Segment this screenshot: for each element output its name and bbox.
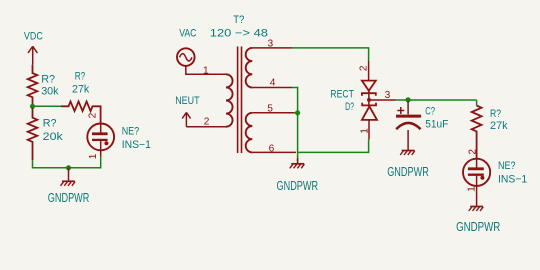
wire rect output — [396, 99, 477, 101]
pin 1 lead D1 — [368, 120, 370, 140]
svg-text:1: 1 — [359, 128, 370, 134]
svg-text:C?: C? — [425, 105, 435, 117]
ac source VAC — [177, 48, 195, 66]
svg-text:NEUT: NEUT — [175, 95, 200, 107]
node C junction pin5 — [295, 110, 300, 115]
ground GNDPWR cap — [400, 147, 415, 156]
resistor R4 27k — [472, 106, 482, 159]
svg-text:5: 5 — [267, 103, 273, 114]
input port NEUT arrow — [182, 112, 190, 126]
svg-text:1: 1 — [88, 153, 99, 159]
svg-text:GNDPWR: GNDPWR — [48, 190, 90, 205]
rectifier D1 pin2 lead — [368, 61, 370, 81]
svg-text:R?: R? — [41, 74, 55, 86]
pin 6 lead — [252, 151, 296, 153]
svg-text:R?: R? — [43, 117, 57, 129]
neon lamp NE2 INS-1 — [463, 159, 490, 192]
svg-text:30k: 30k — [41, 86, 59, 98]
pin 3 lead — [252, 47, 292, 49]
neon lamp NE1 INS-1 — [87, 123, 114, 156]
svg-text:T?: T? — [233, 14, 244, 26]
svg-text:RECT: RECT — [330, 89, 354, 101]
ground GNDPWR mid — [290, 158, 305, 168]
wire bottom rail left — [33, 157, 101, 168]
pin 3 D1 wire — [369, 99, 396, 101]
svg-text:2: 2 — [467, 149, 478, 155]
resistor R1 30k — [28, 65, 38, 105]
svg-text:GNDPWR: GNDPWR — [277, 178, 319, 193]
svg-text:27k: 27k — [72, 84, 90, 96]
transformer T1 primary winding — [226, 74, 233, 126]
wire bottom to diode D1 anode — [298, 140, 369, 153]
node B junction — [66, 165, 71, 170]
wire diode center tap — [368, 91, 370, 107]
diode D1b bottom — [362, 103, 377, 120]
transformer T1 secondary winding B — [246, 113, 253, 153]
svg-text:D?: D? — [345, 101, 354, 113]
wire pin3 to rectifier — [292, 48, 369, 61]
svg-text:NE?: NE? — [122, 125, 140, 137]
transformer T1 core — [238, 47, 242, 154]
svg-text:R?: R? — [490, 108, 501, 120]
transformer T1 secondary winding A — [246, 48, 253, 88]
svg-text:51uF: 51uF — [425, 118, 448, 130]
svg-text:VDC: VDC — [24, 31, 43, 43]
svg-text:INS−1: INS−1 — [498, 173, 527, 185]
svg-text:3: 3 — [385, 90, 391, 101]
svg-text:GNDPWR: GNDPWR — [387, 164, 429, 179]
svg-text:27k: 27k — [490, 120, 508, 132]
svg-text:20k: 20k — [43, 131, 64, 143]
node A junction — [30, 104, 35, 109]
svg-text:1: 1 — [203, 65, 209, 76]
node E junction cap — [406, 97, 411, 102]
svg-text:2: 2 — [204, 117, 210, 128]
svg-text:120 −> 48: 120 −> 48 — [210, 27, 268, 39]
wire to R4 — [476, 100, 478, 106]
resistor R3 20k — [28, 108, 38, 160]
pin 5 lead — [252, 112, 294, 114]
diode D1a top — [362, 81, 376, 96]
ground GNDPWR left — [61, 168, 76, 186]
wire node A to R2 — [33, 105, 62, 107]
svg-text:2: 2 — [87, 112, 98, 118]
svg-text:NE?: NE? — [498, 160, 516, 172]
svg-text:INS−1: INS−1 — [122, 139, 151, 151]
wire NEUT to pin 2 — [186, 126, 226, 128]
node D junction diodes — [367, 98, 371, 102]
capacitor C1 51uF — [407, 101, 409, 114]
svg-text:4: 4 — [270, 78, 276, 89]
svg-text:VAC: VAC — [179, 27, 196, 39]
svg-text:3: 3 — [268, 39, 274, 50]
svg-text:6: 6 — [269, 143, 275, 154]
svg-text:2: 2 — [359, 65, 370, 71]
resistor R2 27k horizontal — [61, 102, 101, 124]
pin 4 lead — [252, 87, 292, 89]
svg-text:GNDPWR: GNDPWR — [456, 219, 500, 234]
power symbol VDC — [28, 46, 37, 65]
svg-text:1: 1 — [467, 186, 478, 192]
wire pin5 stub — [294, 112, 298, 114]
svg-text:R?: R? — [75, 70, 86, 82]
wire VAC to pin 1 — [186, 66, 226, 74]
ground GNDPWR right — [469, 192, 484, 211]
wire pin4 down — [292, 88, 298, 162]
